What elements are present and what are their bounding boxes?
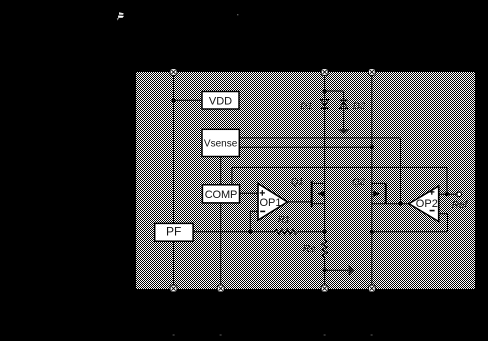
svg-text:PF: PF — [166, 225, 181, 239]
svg-text:D1: D1 — [300, 101, 312, 112]
svg-text:COMP: COMP — [205, 189, 238, 201]
svg-text:R1: R1 — [278, 214, 290, 225]
svg-text:D2: D2 — [353, 101, 366, 112]
svg-text:OP1: OP1 — [260, 197, 282, 209]
svg-text:OP2: OP2 — [416, 198, 438, 210]
svg-text:Ref: Ref — [452, 200, 469, 211]
svg-text:Q2: Q2 — [352, 177, 365, 188]
svg-text:VDD: VDD — [209, 95, 232, 107]
svg-text:Rs: Rs — [303, 243, 317, 255]
svg-text:Vsense: Vsense — [204, 138, 238, 149]
svg-text:Q1: Q1 — [291, 176, 304, 187]
